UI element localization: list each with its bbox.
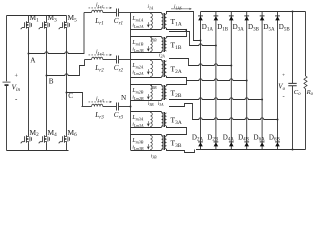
svg-text:Lm3B: Lm3B: [131, 138, 143, 144]
junction leg1 tap: [200, 40, 202, 42]
diode D1B: [214, 15, 219, 17]
wire T2B primary top: [131, 84, 162, 86]
MOSFET M6 body-diode: [68, 137, 70, 142]
wire leg2 drain top: [46, 16, 48, 20]
wire leg3 drain top: [66, 16, 68, 20]
wire T2A primary top: [131, 59, 162, 61]
wire output Ro branch lower: [305, 89, 307, 150]
diode D3B: [244, 15, 249, 17]
current arrow iLm2B down: [147, 94, 149, 99]
wire T3A primary top: [131, 111, 162, 113]
svg-text:iLm2A: iLm2A: [132, 69, 144, 75]
transformer T1B core: [163, 37, 165, 52]
svg-text:B: B: [49, 78, 54, 86]
wire leg1 mid: [28, 30, 30, 134]
svg-text:iLr3: iLr3: [96, 97, 104, 103]
diode D5B: [275, 15, 280, 17]
inductor Lm3A: [151, 112, 153, 128]
svg-text:iLm3A: iLm3A: [132, 121, 144, 127]
inductor Lm1B: [151, 37, 153, 53]
junction Co bottom: [292, 149, 294, 151]
transformer T1A core: [163, 13, 165, 29]
wire phase A to branch1: [29, 13, 85, 54]
svg-text:iLm1B: iLm1B: [132, 46, 144, 52]
wire T3B primary bottom: [131, 150, 162, 152]
svg-text:C: C: [68, 92, 73, 100]
capacitor Cr2: [117, 56, 119, 64]
capacitor Cr1: [117, 9, 119, 17]
inductor Lr2: [92, 57, 103, 59]
battery Vin long plate: [3, 81, 11, 83]
node A junction: [28, 53, 30, 55]
transformer T3A secondary winding: [165, 113, 167, 126]
wire left source rail upper: [6, 16, 8, 82]
wire T3B primary top: [131, 134, 162, 136]
capacitor Co: [288, 83, 296, 85]
wire rectifier leg 1: [200, 12, 202, 150]
wire output Ro branch upper: [305, 12, 307, 77]
current arrow iLm1B down: [147, 46, 149, 51]
transformer T2B core: [163, 85, 165, 100]
node C junction: [66, 92, 68, 94]
wire branch3 into inductor: [82, 106, 92, 108]
wire T1B primary bottom: [131, 52, 162, 54]
MOSFET M1 arrow: [26, 24, 29, 27]
diode D5A: [260, 15, 265, 17]
wire T2B primary bottom: [131, 100, 162, 102]
svg-text:Lm2A: Lm2A: [131, 63, 143, 69]
wire i3BS run to leg6: [169, 104, 278, 120]
transformer T2B secondary winding: [165, 86, 167, 99]
node N junction: [130, 106, 132, 108]
wire i1AS run to leg1: [167, 12, 201, 41]
transformer T3B core: [163, 135, 165, 150]
wire rectifier leg 2: [215, 12, 217, 150]
transformer T3B secondary winding: [165, 136, 167, 149]
arrowhead iLr2: [109, 54, 112, 56]
wire leg1 drain top: [28, 16, 30, 20]
diode D6B: [275, 141, 280, 143]
diode D6A: [260, 141, 265, 143]
wire T3A-T3B secondary link: [167, 126, 187, 136]
svg-text:N: N: [121, 94, 127, 102]
wire leg3 source bottom: [66, 144, 68, 151]
current arrow iLr1: [89, 7, 110, 9]
svg-text:iLm1A: iLm1A: [132, 22, 144, 28]
wire leg1 source bottom: [28, 144, 30, 151]
MOSFET M2 symbol: [21, 134, 29, 144]
inductor Lm2A: [151, 60, 153, 78]
wire left source rail lower: [6, 86, 8, 151]
wire rectifier leg 4: [246, 12, 248, 150]
diode D4A: [229, 141, 234, 143]
MOSFET M5 body-diode: [68, 22, 70, 27]
wire output Co branch lower: [292, 86, 294, 150]
MOSFET M5 symbol: [59, 20, 67, 30]
wire phase C to branch3: [67, 93, 83, 107]
wire leg2 source bottom: [46, 144, 48, 151]
MOSFET M2 body-diode: [30, 137, 32, 142]
diode D3A: [229, 15, 234, 17]
wire branch1 cap to spine: [119, 12, 131, 14]
battery Vin short plate: [5, 84, 9, 86]
arrowhead i1BS up: [185, 29, 187, 31]
wire leg3 mid: [66, 30, 68, 134]
junction Co top: [292, 11, 294, 13]
svg-text:-: -: [283, 94, 285, 101]
inductor Lm1A: [151, 13, 153, 30]
svg-text:iLm3B: iLm3B: [132, 144, 144, 150]
MOSFET M1 body-diode: [30, 22, 32, 27]
capacitor Cr3: [117, 103, 119, 111]
svg-text:Lm1A: Lm1A: [131, 16, 143, 22]
wire i1BS arrow stem: [185, 29, 187, 32]
wire output negative rail: [196, 149, 306, 151]
node B junction: [46, 75, 48, 77]
current arrow iLr2: [89, 54, 110, 56]
wire branch2 into inductor: [85, 59, 92, 61]
wire output positive rail: [201, 11, 306, 13]
svg-text:+: +: [282, 73, 285, 79]
wire output Co branch upper: [292, 12, 294, 84]
wire phase B to branch2: [47, 60, 85, 76]
MOSFET M6 arrow: [64, 138, 67, 141]
svg-text:iLr2: iLr2: [96, 50, 104, 56]
transformer T2B primary winding: [162, 85, 164, 101]
arrowhead i1AS: [189, 8, 192, 10]
wire branch1 into inductor: [84, 12, 92, 14]
wire T1A primary bottom: [131, 29, 162, 31]
wire T2A-T2B secondary link: [167, 76, 187, 86]
transformer T1A secondary winding: [165, 14, 167, 28]
current arrow iLr3: [89, 101, 110, 103]
wire branch3 cap to spine: [119, 106, 131, 108]
wire i3AS run to leg5: [169, 98, 262, 100]
MOSFET M2 arrow: [26, 138, 29, 141]
wire T2A primary bottom: [131, 77, 162, 79]
wire T1A-T1B secondary link: [167, 28, 187, 38]
wire T1A primary top: [131, 12, 162, 14]
transformer T3A core: [163, 112, 165, 127]
MOSFET M5 arrow: [64, 24, 67, 27]
wire T1B primary top: [131, 36, 162, 38]
wire leg2 mid: [46, 30, 48, 134]
wire branch1 inductor to cap: [103, 12, 117, 14]
arrowhead iLr3: [109, 101, 112, 103]
wire branch2 inductor to cap: [103, 59, 117, 61]
diode D1A: [198, 15, 203, 17]
wire T3A primary bottom: [131, 127, 162, 129]
svg-text:iLr1: iLr1: [96, 3, 104, 9]
diode D2B: [214, 141, 219, 143]
MOSFET M4 body-diode: [48, 137, 50, 142]
junction leg3 tap: [230, 65, 232, 67]
svg-text:iLm2B: iLm2B: [132, 94, 144, 100]
junction leg5 tap: [261, 99, 263, 101]
MOSFET M3 body-diode: [48, 22, 50, 27]
transformer T3A primary winding: [162, 112, 164, 128]
diode D2A: [198, 141, 203, 143]
wire rectifier leg 6: [277, 12, 279, 150]
junction leg4 tap: [246, 80, 248, 82]
resistor Ro: [304, 76, 307, 89]
wire i1BS run to leg2: [169, 32, 216, 46]
transformer T1B primary winding: [162, 37, 164, 53]
current arrow iLm1A down: [147, 22, 149, 27]
inductor Lm2B: [151, 85, 153, 101]
wire i2AS run to leg3: [169, 59, 231, 66]
transformer T1B secondary winding: [165, 38, 167, 51]
wire bottom rail of bridge: [7, 150, 69, 152]
inductor Lr1: [92, 10, 103, 12]
wire primary spine: [130, 13, 132, 151]
wire top rail of bridge: [7, 15, 67, 17]
wire T3B bottom to negative rail: [167, 149, 195, 153]
svg-text:A: A: [30, 57, 36, 65]
svg-text:Lm2B: Lm2B: [131, 88, 143, 94]
transformer T2A secondary winding: [165, 61, 167, 76]
transformer T1A primary winding: [162, 13, 164, 30]
wire branch2 cap to spine: [119, 59, 131, 61]
arrowhead iLr1: [109, 7, 112, 9]
MOSFET M6 symbol: [59, 134, 67, 144]
current arrow iLm2A down: [147, 69, 149, 74]
wire i2BS run to leg4: [186, 79, 247, 81]
junction leg6 tap: [277, 119, 279, 121]
MOSFET M4 symbol: [39, 134, 47, 144]
MOSFET M4 arrow: [44, 138, 47, 141]
svg-text:Lm1B: Lm1B: [131, 40, 143, 46]
current arrow i1AS line: [171, 8, 190, 10]
MOSFET M1 symbol: [21, 20, 29, 30]
wire rectifier leg 3: [230, 12, 232, 150]
MOSFET M3 arrow: [44, 24, 47, 27]
svg-text:Lm3A: Lm3A: [131, 115, 143, 121]
wire rectifier leg 5: [261, 12, 263, 150]
transformer T3B primary winding: [162, 135, 164, 151]
transformer T2A primary winding: [162, 60, 164, 78]
diode D4B: [244, 141, 249, 143]
current arrow iLm3A down: [147, 121, 149, 126]
inductor Lr3: [92, 104, 103, 106]
transformer T2A core: [163, 60, 165, 77]
inductor Lm3B: [151, 135, 153, 151]
MOSFET M3 symbol: [39, 20, 47, 30]
junction leg2 tap: [215, 45, 217, 47]
current arrow iLm3B down: [147, 144, 149, 149]
wire branch3 inductor to cap: [103, 106, 117, 108]
